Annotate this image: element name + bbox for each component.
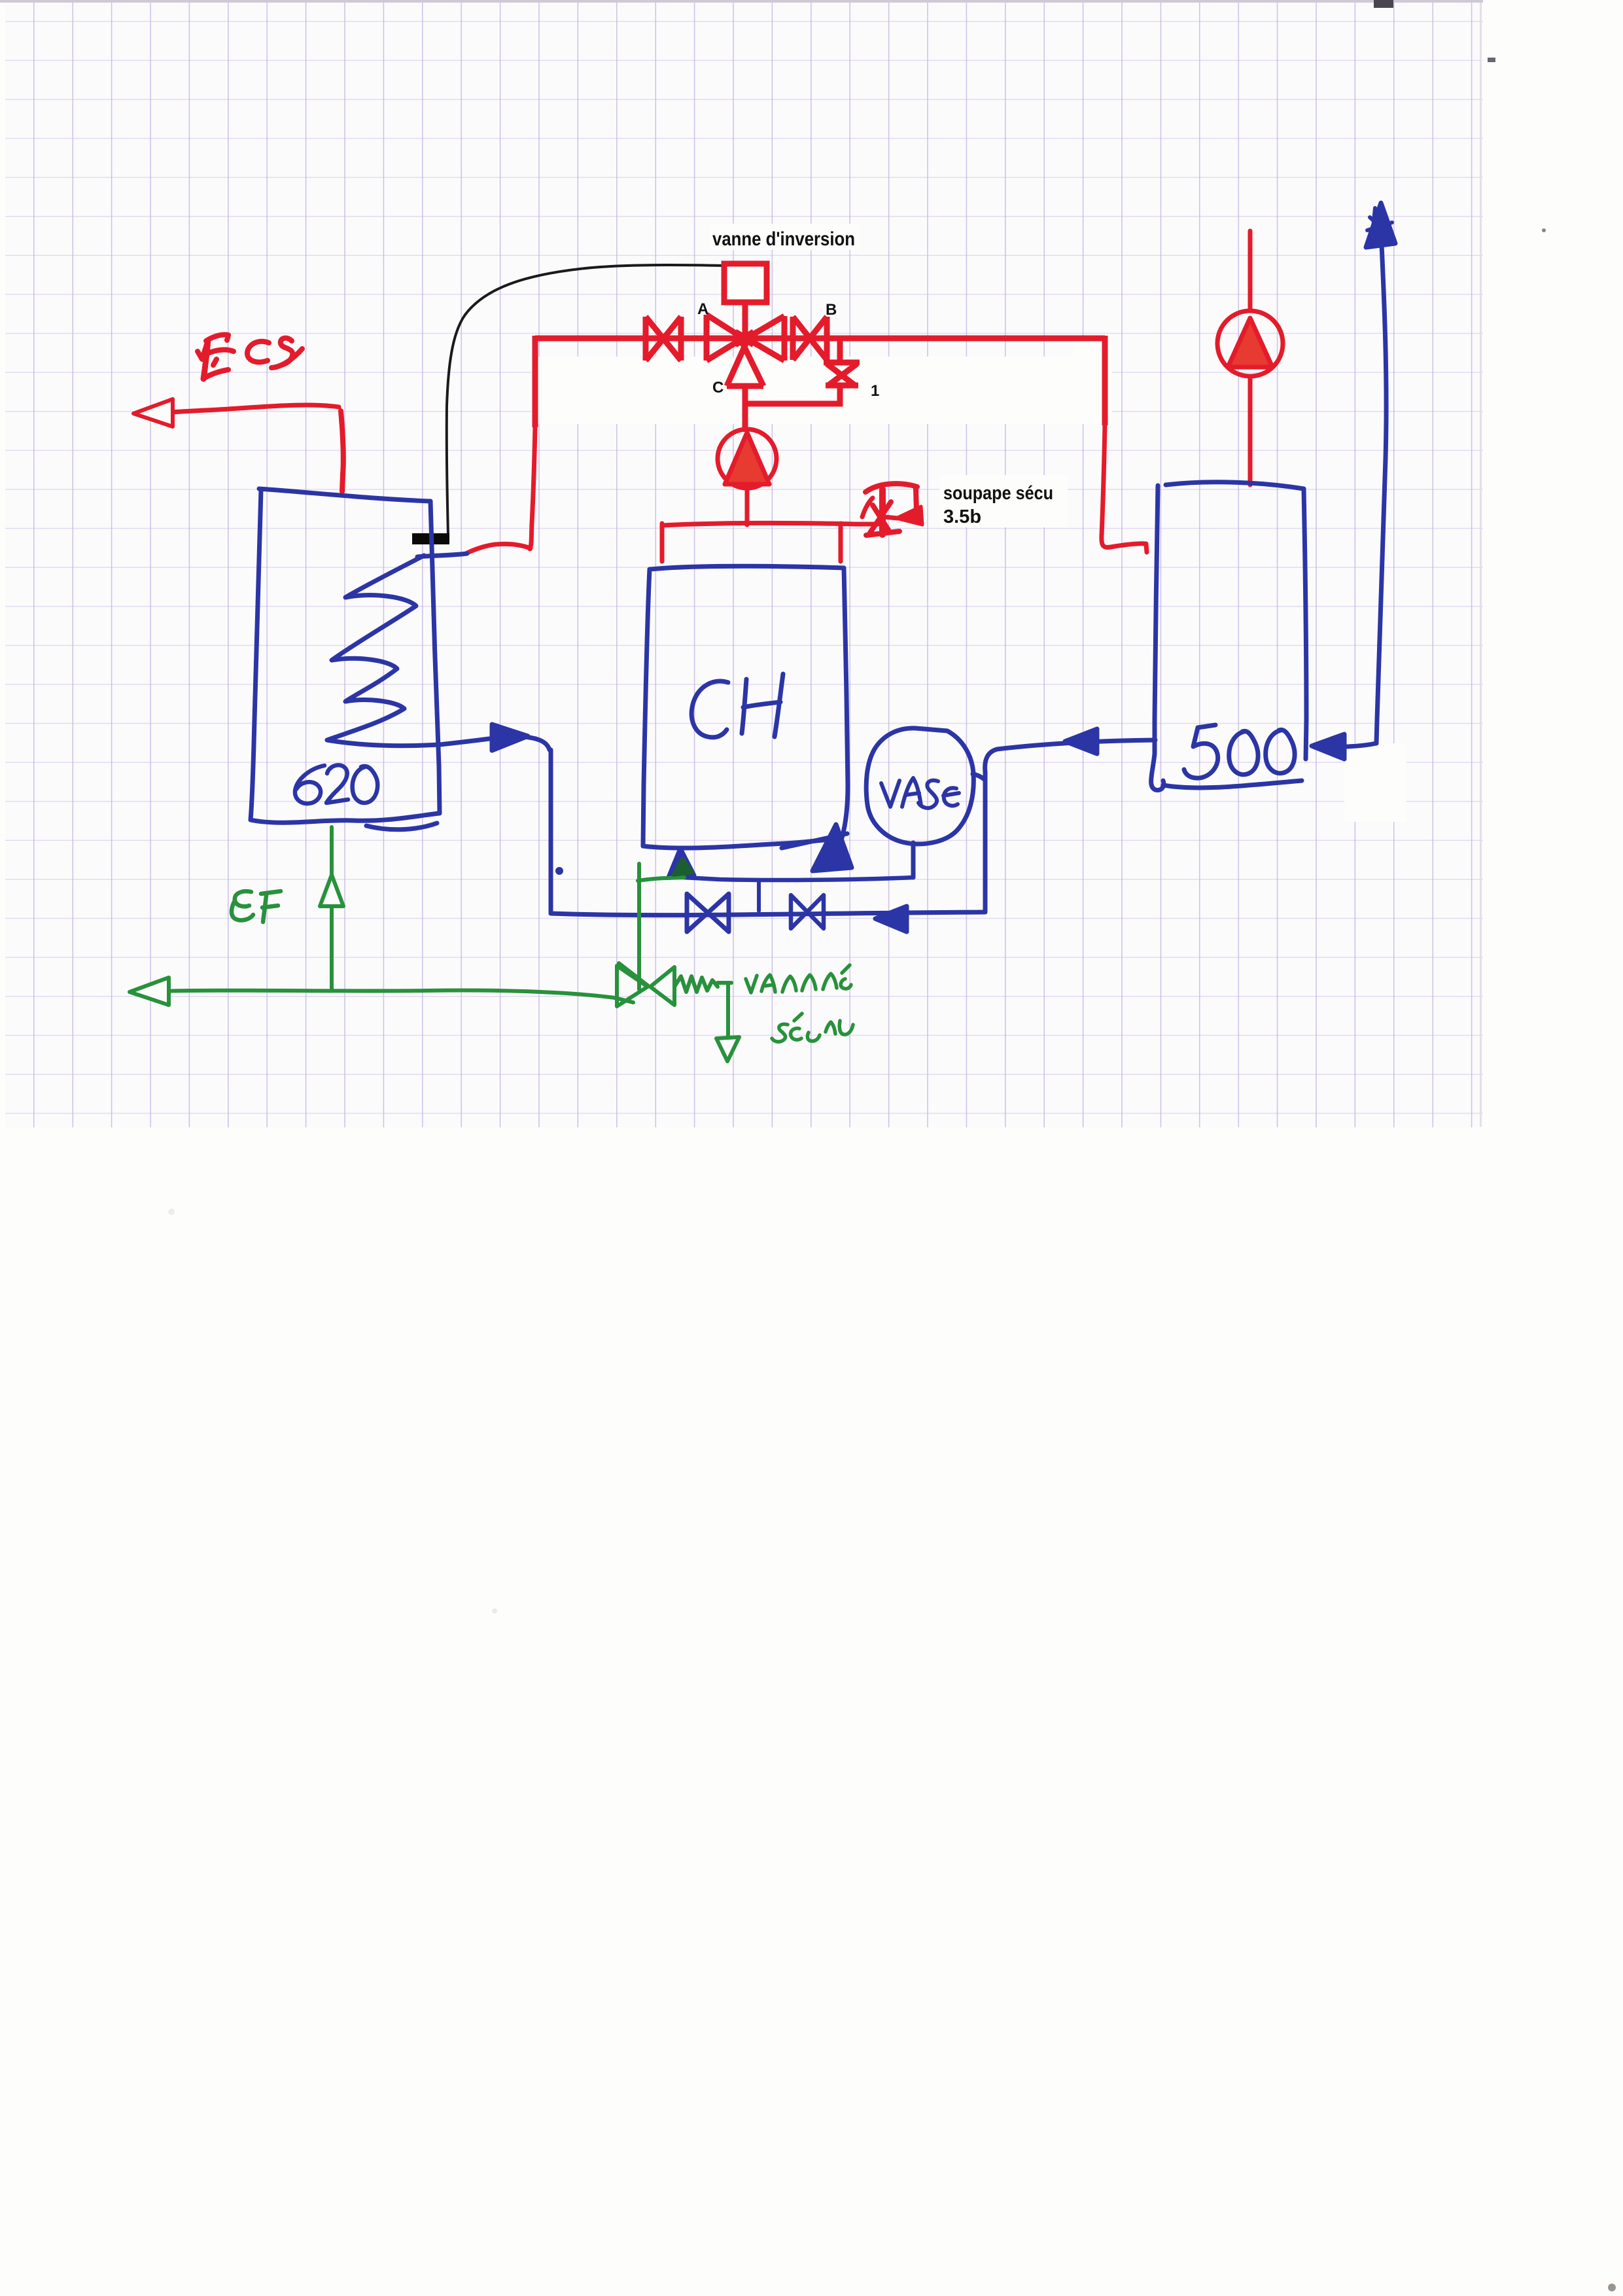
- coil outlet pipe: [440, 739, 489, 745]
- tank 620 bottom: [251, 813, 439, 822]
- tank 620 bottom second wave: [366, 823, 437, 830]
- hand-drawn left riser to tank 620: [530, 426, 535, 549]
- handwritten VASE: [881, 778, 959, 808]
- soupape secu relief valve body: [879, 489, 886, 535]
- pump P1 impeller triangle: [725, 433, 769, 484]
- handwritten vanne secu label: [746, 965, 853, 1042]
- heat exchanger coil: [327, 556, 440, 746]
- ECS outlet pipe: [171, 405, 339, 412]
- cold water EF main pipe: [131, 991, 633, 1002]
- tank 500 bottom-left hook: [1151, 754, 1164, 790]
- stub between mid and bottom lines: [757, 881, 761, 911]
- svg-text:C: C: [712, 379, 724, 397]
- handwritten 500: [1184, 725, 1295, 778]
- capillary tube from actuator to sensor: [447, 265, 724, 536]
- main hot pipe: [535, 336, 1105, 342]
- tank CH inlet arrowhead: [812, 824, 852, 871]
- expansion vessel VASE: [866, 728, 973, 844]
- svg-text:1: 1: [871, 382, 879, 400]
- graph paper area: [5, 3, 1483, 1127]
- bottom valve small bowtie: [791, 895, 824, 928]
- stub pipe above valve 1: [837, 338, 843, 362]
- far right riser pipe: [1376, 216, 1386, 743]
- VASE stub down: [911, 843, 916, 877]
- tee arrowhead up dark: [674, 859, 692, 875]
- svg-text:B: B: [826, 301, 837, 319]
- ECS arrowhead: [133, 399, 173, 427]
- tank CH top: [650, 566, 844, 569]
- EF riser arrowhead up: [320, 875, 343, 906]
- svg-text:soupape sécu: soupape sécu: [943, 483, 1053, 504]
- bottom valve big bowtie: [687, 894, 729, 932]
- far right riser arrowhead up: [1366, 203, 1395, 247]
- pump P1 outlet pipe: [745, 488, 750, 525]
- mid line arrowhead up into CH: [669, 849, 694, 877]
- left vertical pipe: [549, 750, 553, 913]
- tank 500 right wall: [1304, 489, 1306, 759]
- scan top edge artifact: [0, 0, 1483, 3]
- vanne secu bowtie: [617, 966, 674, 1006]
- pipe corner down to bottom line: [523, 737, 550, 750]
- pump P2 riser above tank 500: [1248, 231, 1253, 309]
- bottom flow arrowhead left: [875, 906, 907, 932]
- manifold pipe over CH tank: [662, 523, 884, 525]
- pipe right elbow drop: [1102, 336, 1108, 425]
- vanne secu stem diagonal: [619, 963, 648, 985]
- handwritten ECS label: [198, 342, 207, 359]
- handwritten CH: [691, 674, 783, 737]
- svg-text:3.5b: 3.5b: [943, 506, 981, 527]
- EF riser to tank 620: [330, 827, 334, 989]
- wiggle pipe to sensor junction: [467, 544, 531, 553]
- mid connection line to green tee: [684, 877, 913, 880]
- junction dot: [555, 867, 563, 875]
- svg-text:vanne d'inversion: vanne d'inversion: [712, 228, 855, 250]
- manifold left drop: [660, 523, 665, 561]
- return flow arrowhead left: [1065, 729, 1097, 754]
- tank 500 top: [1166, 482, 1304, 489]
- actuator square of vanne d'inversion: [724, 264, 767, 302]
- tank 500 left wall: [1155, 486, 1158, 754]
- manifold right drop: [839, 523, 843, 561]
- bypass valve 1 vertical X-bowtie: [824, 362, 860, 385]
- bottom return pipe: [551, 912, 985, 915]
- tank 620 right wall: [430, 501, 440, 813]
- valve B X-bowtie: [793, 317, 827, 360]
- svg-text:A: A: [697, 300, 708, 318]
- ECS riser drop to tank: [341, 411, 343, 491]
- pipe to drain: [718, 983, 731, 1037]
- soupape secu discharge arrow: [896, 506, 922, 525]
- hand-drawn right riser: [1102, 424, 1147, 552]
- pipe left elbow drop: [532, 336, 538, 427]
- tee horizontal to CH: [638, 877, 684, 881]
- pump P2 circle: [1217, 311, 1283, 376]
- pump P1 circle: [718, 429, 777, 488]
- pump P2 impeller triangle: [1228, 318, 1272, 367]
- VASE top-right connect: [973, 774, 985, 780]
- stub pipe below valve 1: [837, 385, 843, 406]
- tank CH bottom: [643, 839, 840, 848]
- coil stub from sensor junction: [417, 554, 467, 557]
- vanne secu spring zigzag: [674, 976, 718, 992]
- tee riser to CH tank: [637, 864, 641, 989]
- EF arrowhead left: [130, 978, 169, 1005]
- handwritten EF label: [232, 891, 253, 920]
- isolation valve left X-bowtie: [646, 317, 681, 361]
- 3-way valve V3V port C triangle: [727, 334, 763, 386]
- pump P2 outlet to tank 500: [1248, 378, 1253, 485]
- 3-way valve V3V port A triangle: [707, 315, 754, 361]
- tank 620 left wall: [251, 490, 261, 820]
- return pipe from tank 500: [985, 740, 1155, 772]
- tank CH inlet diagonal: [782, 834, 847, 848]
- tank CH left wall: [643, 569, 650, 846]
- tank 620 top: [259, 489, 430, 501]
- right vertical return pipe: [983, 772, 988, 912]
- handwritten 620: [295, 765, 377, 804]
- C port stem pipe: [742, 386, 748, 432]
- actuator stem: [742, 302, 748, 336]
- white patches (erasures): [531, 224, 1406, 822]
- bypass jog pipe to C stem: [746, 401, 843, 407]
- sensor pocket black bar on tank 620: [412, 533, 449, 544]
- drain arrowhead down: [716, 1037, 739, 1061]
- tank CH right wall: [840, 568, 848, 844]
- coil outlet arrowhead: [492, 724, 528, 751]
- 3-way valve V3V port B triangle: [735, 316, 784, 361]
- arrowhead into tank 500 right: [1312, 734, 1344, 759]
- tank 500 bottom: [1163, 781, 1302, 788]
- far right connect into tank 500: [1321, 743, 1376, 747]
- soupape secu spout: [865, 484, 917, 511]
